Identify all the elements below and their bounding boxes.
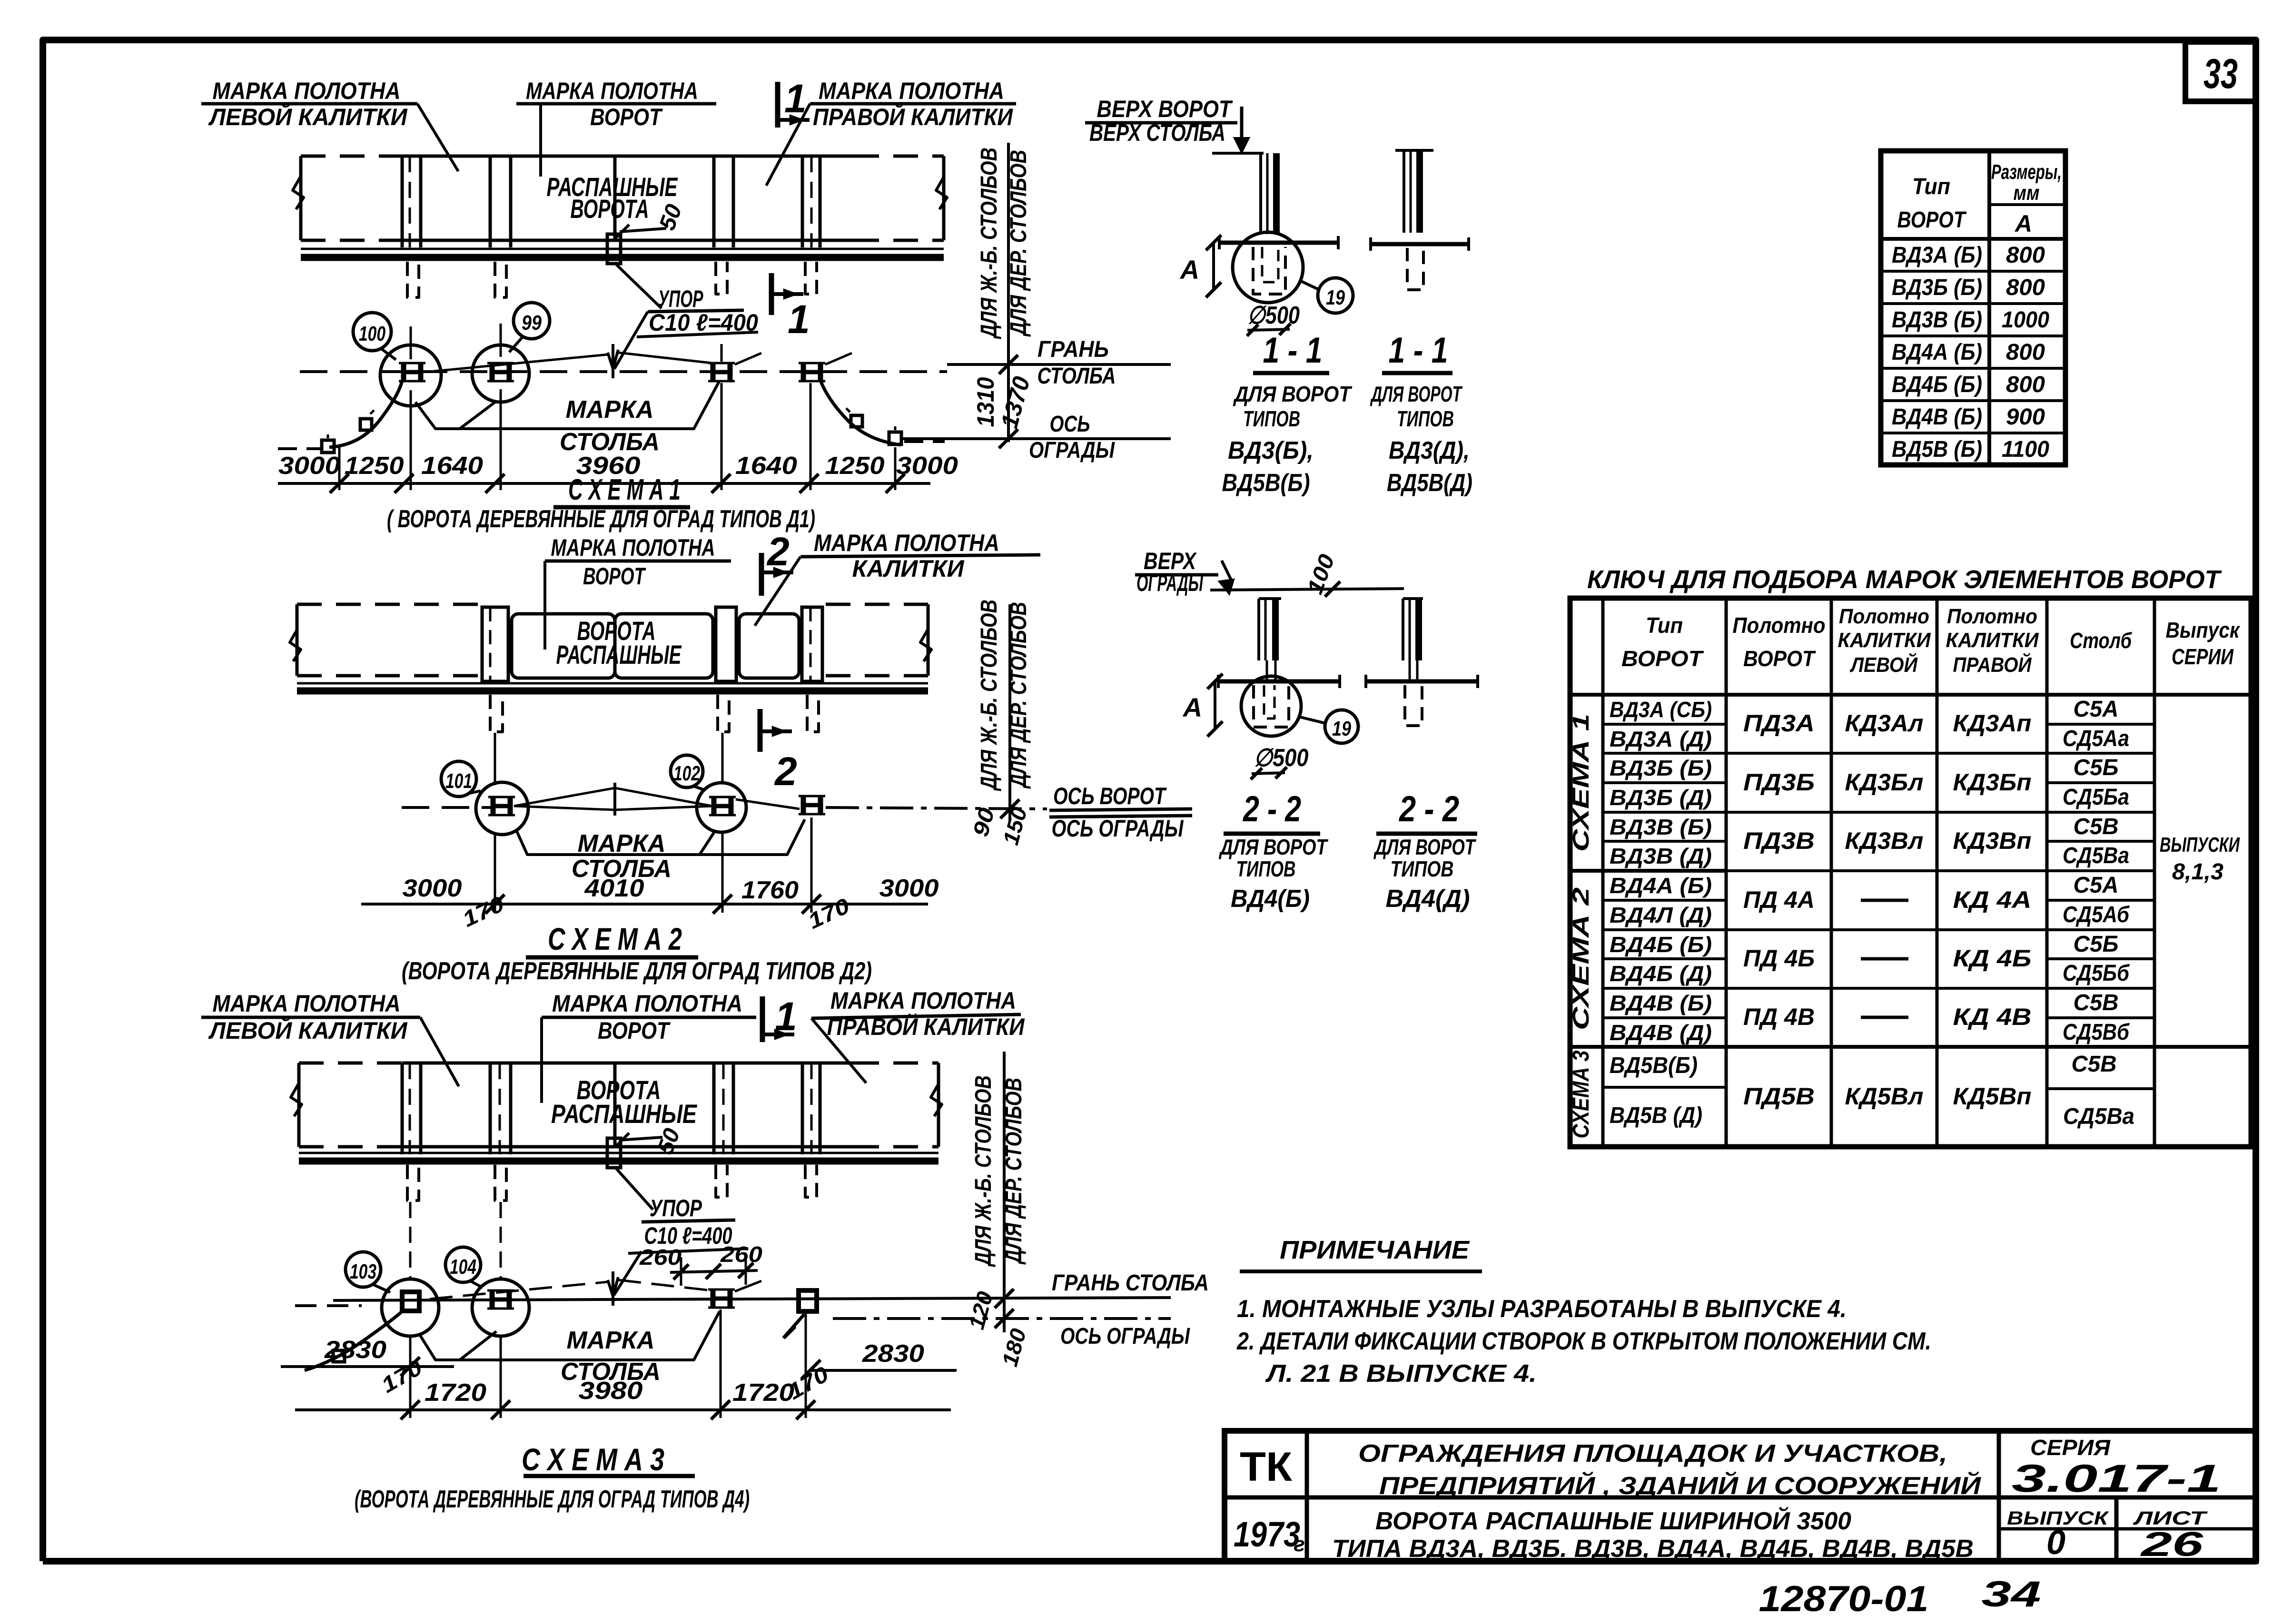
detail 1-1 right post ground line <box>1371 242 1469 246</box>
svg-text:1 - 1: 1 - 1 <box>1263 330 1323 371</box>
svg-text:МАРКА ПОЛОТНА: МАРКА ПОЛОТНА <box>213 78 401 104</box>
scheme 1 plan: post symbol 2 (H section) <box>490 363 495 381</box>
svg-text:ВД4В (Б): ВД4В (Б) <box>1610 991 1712 1015</box>
svg-text:ПРАВОЙ: ПРАВОЙ <box>1953 652 2032 677</box>
svg-text:КЛЮЧ ДЛЯ ПОДБОРА МАРОК ЭЛЕМЕНТ: КЛЮЧ ДЛЯ ПОДБОРА МАРОК ЭЛЕМЕНТОВ ВОРОТ <box>1587 565 2222 594</box>
scheme 3 elevation: fence bottom line left (dashed) <box>299 1145 402 1149</box>
scheme 3 plan: post axis verticals from elevation <box>409 1202 412 1279</box>
svg-text:ВД5В (Б): ВД5В (Б) <box>1892 437 1982 462</box>
svg-text:СД5Аа: СД5Аа <box>2063 726 2129 751</box>
scheme 3 plan: post symbol 1 (square timber) <box>402 1292 419 1311</box>
scheme 3 plan: post symbol 3 (H section) <box>711 1289 716 1308</box>
scheme 2 plan: lens between posts <box>514 788 712 810</box>
svg-text:Тип: Тип <box>1646 613 1683 638</box>
title block vertical divider left <box>1305 1431 1309 1561</box>
svg-text:СД5Бб: СД5Бб <box>2063 961 2130 986</box>
scheme 2 plan: post axis verticals from elevation <box>494 733 496 785</box>
scheme 3 elevation: post 2 <box>489 1063 492 1154</box>
svg-text:260: 260 <box>720 1242 763 1267</box>
scheme 1 plan: leader balloon 100 to post circle <box>381 348 396 360</box>
scheme 2 elevation: right end vertical edge <box>927 604 930 676</box>
scheme 3 plan: rotated dim 170 left <box>377 1355 426 1398</box>
gate type table frame <box>1881 151 2065 465</box>
scheme 3 elevation: fence top line right (dashed) <box>854 1062 938 1065</box>
svg-text:СД5Ва: СД5Ва <box>2063 843 2129 868</box>
scheme 2 elevation: fence top line left (dashed) <box>297 603 481 606</box>
svg-text:ВД3Б (Д): ВД3Б (Д) <box>1610 785 1712 810</box>
scheme 1 elevation: fence bottom line right (dashed) <box>854 239 944 242</box>
svg-text:РАСПАШНЫЕ: РАСПАШНЫЕ <box>556 640 682 669</box>
scheme 3 elevation: centre stop block at ground <box>607 1138 621 1168</box>
scheme 3 elevation: fence bottom line right (dashed) <box>854 1145 938 1149</box>
svg-text:ВД5В (Д): ВД5В (Д) <box>1610 1103 1702 1128</box>
key table rotated СХЕМА 1 <box>1569 714 1594 852</box>
scheme 3 plan: axis dashed segment left <box>295 1304 362 1307</box>
scheme 2 plan: leader balloon 102 to post circle <box>693 786 704 790</box>
scheme 2 rotated dim 90 <box>968 805 999 839</box>
scheme 2 elevation: right break mark <box>920 629 931 661</box>
scheme 2 plan: leader balloon 101 to post circle <box>467 791 481 794</box>
svg-text:1720: 1720 <box>425 1379 486 1407</box>
scheme 3 plan: extension lines to dim line <box>409 1336 412 1418</box>
svg-text:ВД5В(Б): ВД5В(Б) <box>1222 469 1310 497</box>
svg-text:1100: 1100 <box>2002 437 2049 462</box>
svg-text:С5А: С5А <box>2074 873 2119 898</box>
scheme 1 УПОР leader from stop block <box>616 265 662 308</box>
key table tip row line <box>1603 957 1726 960</box>
detail 1-1 dim A <box>1212 243 1215 290</box>
scheme 2 elevation: ground line (thick) <box>297 688 928 695</box>
scheme 2 plan: bracket for МАРКА СТОЛБА <box>516 819 805 855</box>
svg-text:КАЛИТКИ: КАЛИТКИ <box>1838 629 1931 652</box>
svg-text:ЛЕВОЙ КАЛИТКИ: ЛЕВОЙ КАЛИТКИ <box>208 1017 408 1044</box>
svg-text:ВД3А (СБ): ВД3А (СБ) <box>1610 697 1712 722</box>
svg-text:СД5Ва: СД5Ва <box>2063 1104 2134 1129</box>
detail 2-2 left post ground line <box>1218 679 1340 684</box>
svg-text:ВД4(Д): ВД4(Д) <box>1386 885 1470 913</box>
scheme 3 elevation: buried leg of post 3 <box>716 1165 727 1197</box>
key table schema3 tip split <box>1603 1086 1726 1089</box>
svg-text:С X Е М А 3: С X Е М А 3 <box>522 1442 664 1477</box>
gate type table row line <box>1881 302 2065 305</box>
svg-text:ВД3(Б),: ВД3(Б), <box>1228 437 1314 464</box>
svg-text:2. ДЕТАЛИ ФИКСАЦИИ СТВОРОК: 2. ДЕТАЛИ ФИКСАЦИИ СТВОРОК В ОТКРЫТОМ ПО… <box>1236 1328 1931 1355</box>
scheme 3 plan: centre mark V <box>608 1277 618 1296</box>
scheme 3 leader from middle label down to gate panel <box>540 1017 543 1103</box>
svg-text:1250: 1250 <box>345 452 404 480</box>
scheme 1 plan: leader lines from marks to posts <box>430 354 608 372</box>
scheme 1 elevation: buried leg of post 1 <box>407 262 419 297</box>
scheme 1 plan: bracket for МАРКА СТОЛБА <box>415 381 720 429</box>
svg-text:ПРАВОЙ КАЛИТКИ: ПРАВОЙ КАЛИТКИ <box>813 103 1013 130</box>
svg-text:1. МОНТАЖНЫЕ УЗЛЫ РАЗРАБОТАН: 1. МОНТАЖНЫЕ УЗЛЫ РАЗРАБОТАНЫ В ВЫПУСКЕ … <box>1237 1295 1847 1323</box>
scheme 2 elevation: post 3 <box>802 607 822 681</box>
svg-text:МАРКА ПОЛОТНА: МАРКА ПОЛОТНА <box>552 990 742 1017</box>
gate type table header split line <box>1989 203 2065 206</box>
svg-text:ПД 4А: ПД 4А <box>1743 886 1815 913</box>
svg-text:1: 1 <box>788 297 810 342</box>
scheme 3 plan: leader post3 to post4 <box>735 1281 761 1291</box>
scheme 1 plan: right fence curve <box>820 381 900 445</box>
scheme 3 elevation: buried leg of post 1 <box>407 1165 419 1201</box>
detail 2-2 detail circle <box>1241 676 1301 736</box>
scheme 3 plan: post symbol 2 (H section) <box>490 1290 495 1309</box>
scheme 1 elevation: ground line (thick) <box>301 254 944 261</box>
scheme 3 plan: balloon 104 <box>445 1247 481 1282</box>
svg-text:1640: 1640 <box>421 452 483 480</box>
scheme 1 elevation: left end vertical edge <box>299 156 303 240</box>
svg-text:1760: 1760 <box>741 876 799 904</box>
scheme 1 elevation: fence top line right (dashed) <box>854 155 944 158</box>
svg-text:2: 2 <box>766 529 790 574</box>
svg-text:ВОРОТ: ВОРОТ <box>583 563 646 590</box>
svg-text:ДЛЯ ВОРОТ: ДЛЯ ВОРОТ <box>1373 835 1476 859</box>
scheme 1 vertical reference line for posts <box>1007 143 1010 442</box>
svg-text:ТИПА ВД3А, ВД3Б. ВД3В, ВД4А,: ТИПА ВД3А, ВД3Б. ВД3В, ВД4А, ВД4Б, ВД4В,… <box>1332 1535 1974 1563</box>
scheme 2 elevation: gate leaf panel right <box>615 614 713 678</box>
svg-text:∅500: ∅500 <box>1247 302 1300 329</box>
scheme 1 elevation: fence top line left (dashed) <box>301 155 402 158</box>
svg-text:ВД3Б (Б): ВД3Б (Б) <box>1610 756 1712 780</box>
svg-text:ДЛЯ ДЕР. СТОЛБОВ: ДЛЯ ДЕР. СТОЛБОВ <box>1006 602 1031 789</box>
scheme 1 rotated dim 1370 <box>996 374 1035 431</box>
svg-text:ДЛЯ Ж.-Б. СТОЛБОВ: ДЛЯ Ж.-Б. СТОЛБОВ <box>977 600 1002 791</box>
scheme 3 elevation: gate bottom rail <box>402 1145 854 1149</box>
key table stolb schema3 split <box>2047 1087 2154 1090</box>
scheme 3 plan: left fence curve approach <box>305 1311 402 1370</box>
svg-text:33: 33 <box>2203 50 2238 97</box>
svg-text:1640: 1640 <box>735 452 797 480</box>
scheme 1 elevation: buried leg of post 2 <box>495 262 506 297</box>
scheme 3 elevation: post 4 <box>801 1063 804 1154</box>
sheet number box <box>2185 42 2256 101</box>
scheme 3 rotated dim 180 <box>997 1326 1031 1369</box>
svg-text:МАРКА ПОЛОТНА: МАРКА ПОЛОТНА <box>819 78 1004 104</box>
svg-text:800: 800 <box>2006 275 2045 300</box>
svg-text:34: 34 <box>1982 1574 2041 1614</box>
scheme 2 rotated text ДЛЯ ДЕР. СТОЛБОВ <box>1006 602 1031 789</box>
key table stolb row line <box>2047 723 2154 726</box>
scheme 1 plan: balloon 99 <box>514 303 550 339</box>
key table kalitka left — <box>1861 899 1908 902</box>
scheme 2 plan: leader from post 2 to post 3 <box>736 799 800 809</box>
scheme 2 plan: detail circle around post 2 <box>697 783 746 832</box>
scheme 3 elevation: right break mark <box>931 1084 942 1116</box>
svg-text:4010: 4010 <box>584 875 644 902</box>
scheme 2 elevation: left end vertical edge <box>296 604 299 676</box>
scheme 1 plan: balloon 100 <box>353 313 391 351</box>
detail 1-1 right post body <box>1403 150 1405 233</box>
svg-text:ПД 4В: ПД 4В <box>1743 1004 1815 1030</box>
svg-text:КД3Бл: КД3Бл <box>1845 769 1924 796</box>
scheme 1 plan: leader balloon 99 to post circle <box>509 336 524 352</box>
key table outer frame <box>1570 598 2251 1147</box>
scheme 3 elevation: post 3 <box>712 1063 716 1154</box>
scheme 1 plan: fence post square right <box>889 432 901 444</box>
scheme 2 plan: post symbol 1 (H section) <box>491 797 496 815</box>
scheme 1 plan: post symbol 4 (H section) <box>801 363 806 381</box>
svg-text:Полотно: Полотно <box>1733 613 1826 638</box>
svg-text:А: А <box>1179 255 1199 285</box>
scheme 3 plan: dashed leaders from marks to posts <box>430 1282 608 1299</box>
title block outer frame <box>1225 1431 2256 1561</box>
svg-text:А: А <box>2014 210 2032 237</box>
gate type table row line <box>1881 335 2065 337</box>
svg-text:1720: 1720 <box>732 1379 794 1407</box>
svg-text:ПД3А: ПД3А <box>1743 710 1815 737</box>
key table stolb row line <box>2047 840 2154 843</box>
key table tip row line <box>1603 869 1726 872</box>
scheme 3 elevation: left end vertical edge <box>297 1063 301 1147</box>
svg-text:ВД3Б (Б): ВД3Б (Б) <box>1892 275 1982 300</box>
svg-text:СД5Вб: СД5Вб <box>2063 1020 2130 1045</box>
scheme 1 elevation: rotated dim 50 <box>654 201 687 234</box>
scheme 2 elevation: post 2 <box>716 607 736 681</box>
key table tip row line <box>1603 781 1726 784</box>
svg-text:ЛЕВОЙ: ЛЕВОЙ <box>1849 652 1918 677</box>
svg-text:800: 800 <box>2006 243 2045 268</box>
detail 2-2 rotated dim 100 <box>1302 551 1339 597</box>
scheme 1 rotated text ДЛЯ ДЕР. СТОЛБОВ <box>1006 150 1031 337</box>
svg-text:ПД3Б: ПД3Б <box>1743 769 1815 796</box>
scheme 3 plan: main dimension line <box>295 1408 951 1411</box>
svg-text:Полотно: Полотно <box>1839 605 1929 628</box>
svg-text:Тип: Тип <box>1912 174 1950 199</box>
scheme 1 plan: fence post square on left curve <box>360 419 372 430</box>
svg-text:СХЕМА 1: СХЕМА 1 <box>1569 714 1594 852</box>
svg-text:(ВОРОТА ДЕРЕВЯННЫЕ ДЛЯ ОГРАД Т: (ВОРОТА ДЕРЕВЯННЫЕ ДЛЯ ОГРАД ТИПОВ Д4) <box>355 1486 750 1513</box>
svg-text:МАРКА: МАРКА <box>567 1327 655 1354</box>
scheme 1 section mark 1 bottom <box>769 273 774 315</box>
svg-text:А: А <box>1182 692 1202 722</box>
scheme 3 leader from left label to left wicket panel <box>420 1017 459 1086</box>
svg-text:Размеры,: Размеры, <box>1991 160 2062 184</box>
detail 1-1 right post: top level line <box>1395 149 1433 152</box>
gate type table row line <box>1881 367 2065 370</box>
svg-text:С5А: С5А <box>2074 697 2119 722</box>
scheme 1 elevation: post 2 <box>489 156 492 247</box>
svg-text:ДЛЯ ВОРОТ: ДЛЯ ВОРОТ <box>1218 835 1328 859</box>
scheme 2 elevation: wicket panel <box>739 614 799 678</box>
key table stolb row line <box>2047 811 2154 814</box>
scheme 1 elevation: centre meeting stile <box>613 156 617 240</box>
scheme 2 elevation: fence top line right (dashed) <box>826 603 928 606</box>
svg-text:ДЛЯ Ж.-Б. СТОЛБОВ: ДЛЯ Ж.-Б. СТОЛБОВ <box>971 1075 996 1267</box>
scheme 2 leader from middle label down to gate panel <box>543 561 546 650</box>
svg-text:С5В: С5В <box>2074 814 2119 839</box>
scheme 3 leader from УПОР label to plan centre mark <box>614 1251 642 1295</box>
scheme 1 leader from middle label down to gate panel <box>539 104 542 177</box>
svg-text:ОСЬ ОГРАДЫ: ОСЬ ОГРАДЫ <box>1060 1324 1190 1349</box>
detail 1-1 left post body <box>1259 153 1262 234</box>
key table column lines <box>1601 598 1605 1147</box>
scheme 1 elevation: post 4 (right hinge post) <box>801 156 804 247</box>
scheme 1 plan: post axis extension lines to dim line <box>410 326 412 359</box>
svg-text:ПД 4Б: ПД 4Б <box>1743 945 1815 972</box>
svg-text:КД3Ал: КД3Ал <box>1845 710 1924 737</box>
svg-text:ВОРОТ: ВОРОТ <box>598 1017 671 1044</box>
gate type table header bottom line <box>1881 237 2065 241</box>
svg-text:мм: мм <box>2014 181 2040 205</box>
scheme 3 elevation: buried leg of post 2 <box>495 1165 506 1201</box>
svg-text:СХЕМА 2: СХЕМА 2 <box>1569 887 1594 1030</box>
svg-text:ВД4А (Б): ВД4А (Б) <box>1892 340 1982 365</box>
svg-text:3000: 3000 <box>278 452 340 480</box>
svg-text:Полотно: Полотно <box>1947 605 2037 628</box>
detail 2-2 left post tenon <box>1266 660 1268 681</box>
detail 2-2 right post body <box>1402 599 1404 660</box>
scheme 3 plan: post symbol 4 (square timber) <box>799 1290 817 1311</box>
svg-text:ВД4Б (Д): ВД4Б (Д) <box>1610 961 1712 986</box>
svg-text:МАРКА ПОЛОТНА: МАРКА ПОЛОТНА <box>814 530 999 556</box>
svg-text:1250: 1250 <box>825 452 885 480</box>
detail 1-1 level arrow <box>1240 107 1244 143</box>
svg-text:КД3Вл: КД3Вл <box>1845 827 1924 854</box>
scheme 3 elevation: rotated dim 50 <box>652 1125 685 1158</box>
scheme 2 section mark 2 top <box>759 553 764 596</box>
svg-text:1: 1 <box>775 994 797 1039</box>
svg-text:г.: г. <box>1294 1533 1310 1556</box>
scheme 1 elevation: gate top rail <box>402 155 854 158</box>
svg-text:ВЫПУСКИ: ВЫПУСКИ <box>2160 833 2240 856</box>
scheme 3 right reference: ОСЬ ОГРАДЫ dash-dot <box>833 1317 1171 1320</box>
scheme 1 elevation: left break mark <box>293 177 304 209</box>
svg-text:ГРАНЬ: ГРАНЬ <box>1037 337 1109 362</box>
svg-text:260: 260 <box>639 1245 682 1270</box>
svg-text:800: 800 <box>2006 372 2045 397</box>
svg-text:(ВОРОТА ДЕРЕВЯННЫЕ ДЛЯ ОГРАД Т: (ВОРОТА ДЕРЕВЯННЫЕ ДЛЯ ОГРАД ТИПОВ Д2) <box>402 957 872 985</box>
scheme 1 plan: dimension line <box>278 482 930 485</box>
detail 1-1 detail circle <box>1233 232 1303 303</box>
svg-text:ДЛЯ ВОРОТ: ДЛЯ ВОРОТ <box>1370 382 1462 406</box>
key table stolb row line <box>2047 928 2154 931</box>
scheme 1 elevation: buried leg of post 3 <box>716 262 727 294</box>
scheme 1 elevation: gate bottom rail <box>402 239 854 242</box>
scheme 2 plan: extension lines to dim line <box>494 834 496 913</box>
scheme 3 plan: line through posts (grain) <box>333 1298 1171 1300</box>
scheme 2 section mark 2 bottom <box>758 709 763 752</box>
svg-text:ДЛЯ ДЕР. СТОЛБОВ: ДЛЯ ДЕР. СТОЛБОВ <box>1006 150 1031 337</box>
scheme 1 leader from left label to left wicket panel <box>417 104 458 171</box>
scheme 3 dim 260 260 over post 3 <box>670 1270 758 1272</box>
svg-text:ВЕРХ СТОЛБА: ВЕРХ СТОЛБА <box>1089 119 1225 146</box>
svg-text:СТОЛБА: СТОЛБА <box>1037 364 1116 389</box>
svg-text:МАРКА ПОЛОТНА: МАРКА ПОЛОТНА <box>526 78 698 104</box>
detail 2-2 level arrow <box>1222 561 1233 583</box>
scheme 1 elevation: centre stop block at ground <box>607 234 621 264</box>
svg-text:ВД4В (Д): ВД4В (Д) <box>1610 1020 1712 1045</box>
scheme 1 section mark 1 top <box>775 82 780 128</box>
svg-text:ТИПОВ: ТИПОВ <box>1243 406 1300 431</box>
title block vertical divider right <box>1997 1431 2001 1561</box>
scheme 3 elevation: centre meeting stile <box>613 1063 617 1147</box>
svg-text:ОСЬ ВОРОТ: ОСЬ ВОРОТ <box>1053 783 1167 809</box>
key table tip row line <box>1603 987 1726 990</box>
scheme 2 plan: post symbol 3 (H section) <box>801 796 806 814</box>
svg-text:КД5Вл: КД5Вл <box>1845 1083 1924 1110</box>
svg-text:ТИПОВ: ТИПОВ <box>1397 406 1454 431</box>
scheme 2 plan: post symbol 2 (H section) <box>711 797 717 815</box>
scheme 3 УПОР leader from stop block <box>616 1169 653 1210</box>
scheme 1 right reference: ОСЬ ОГРАДЫ line <box>900 437 1171 440</box>
detail 2-2 right post buried part (dashed) <box>1405 685 1422 726</box>
gate type table column divider <box>1987 151 1991 465</box>
scheme 1 plan: left fence curve approach <box>278 447 322 450</box>
svg-text:СЕРИИ: СЕРИИ <box>2172 644 2234 669</box>
svg-text:ВД4Б (Б): ВД4Б (Б) <box>1610 932 1712 957</box>
scheme 2 elevation: buried leg of post 2 <box>718 695 729 732</box>
key table pair row line <box>1726 811 2047 814</box>
scheme 1 elevation: buried leg of post 4 <box>805 262 817 294</box>
scheme 3 leader from right label to right wicket panel <box>811 1018 866 1083</box>
svg-text:2 - 2: 2 - 2 <box>1242 789 1301 829</box>
scheme 2 elevation: buried leg of post 1 <box>490 695 503 732</box>
svg-text:СД5Ба: СД5Ба <box>2063 785 2129 810</box>
scheme 2 plan: dimension line <box>361 903 928 906</box>
svg-text:19: 19 <box>1326 286 1345 309</box>
svg-text:103: 103 <box>350 1260 376 1283</box>
svg-text:ВД4(Б): ВД4(Б) <box>1231 885 1310 913</box>
svg-text:ВД3(Д),: ВД3(Д), <box>1389 437 1470 464</box>
key table pair row line <box>1726 752 2047 755</box>
svg-text:ВД3В (Б): ВД3В (Б) <box>1610 815 1712 839</box>
svg-text:ВОРОТА: ВОРОТА <box>571 194 649 224</box>
detail 1-1 left post: top level line <box>1212 152 1264 155</box>
detail 1-1 leader to balloon 19 <box>1300 281 1318 289</box>
key table tip row line <box>1603 899 1726 902</box>
svg-text:ВД4В (Б): ВД4В (Б) <box>1892 404 1982 430</box>
scheme 2 plan: balloon 102 <box>671 755 703 787</box>
gate type table row line <box>1881 399 2065 402</box>
svg-text:ТИПОВ: ТИПОВ <box>1391 856 1454 881</box>
svg-text:КД5Вп: КД5Вп <box>1953 1083 2032 1110</box>
detail 1-1 left post ground line <box>1219 241 1338 245</box>
scheme 3 elevation: bottom guide line <box>299 1152 938 1154</box>
scheme 1 elevation: 50 offset arrow <box>620 228 666 232</box>
detail 2-2 balloon 19 <box>1325 710 1358 743</box>
svg-text:ЛЕВОЙ КАЛИТКИ: ЛЕВОЙ КАЛИТКИ <box>208 103 408 130</box>
scheme 3 elevation: 50 offset arrow <box>620 1137 662 1140</box>
svg-text:МАРКА: МАРКА <box>578 830 666 857</box>
scheme 3 plan: right fence diagonal <box>783 1314 804 1338</box>
detail 2-2 top level line <box>1210 589 1404 590</box>
svg-text:∅500: ∅500 <box>1254 744 1309 772</box>
scheme 2 rotated text ДЛЯ Ж.-Б. СТОЛБОВ <box>977 600 1002 791</box>
scheme 2 elevation: fence bottom line right (dashed) <box>826 674 928 678</box>
scheme 2 plan: axis dashed line <box>402 806 493 809</box>
svg-text:КД 4В: КД 4В <box>1953 1004 2032 1030</box>
svg-text:КД3Вп: КД3Вп <box>1953 827 2032 854</box>
scheme 3 plan: leader balloon 104 to post circle <box>470 1281 483 1288</box>
key table stolb row line <box>2047 781 2154 784</box>
svg-text:ВОРОТ: ВОРОТ <box>1743 646 1817 671</box>
svg-text:ВОРОТ: ВОРОТ <box>590 104 663 130</box>
key table stolb row line <box>2047 869 2154 872</box>
svg-text:1000: 1000 <box>2002 307 2049 333</box>
svg-text:ПРИМЕЧАНИЕ: ПРИМЕЧАНИЕ <box>1280 1236 1470 1264</box>
svg-text:КД 4Б: КД 4Б <box>1953 945 2032 972</box>
svg-text:КД 4А: КД 4А <box>1953 886 2032 913</box>
gate type table row line <box>1881 270 2065 273</box>
detail 2-2 left post buried part (dashed) <box>1254 685 1289 727</box>
svg-text:СЕРИЯ: СЕРИЯ <box>2030 1435 2111 1460</box>
key table stolb row line <box>2047 987 2154 990</box>
scheme 1 elevation: post 1 (left hinge post) <box>401 156 404 247</box>
svg-text:РАСПАШНЫЕ: РАСПАШНЫЕ <box>551 1099 697 1129</box>
svg-text:ДЛЯ ВОРОТ: ДЛЯ ВОРОТ <box>1233 382 1353 406</box>
key table header bottom line <box>1570 693 2251 697</box>
scheme 3 plan: balloon 103 <box>346 1252 381 1287</box>
